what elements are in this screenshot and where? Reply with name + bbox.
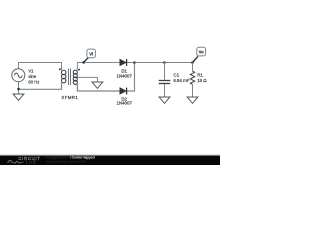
wire D2 cathode up to output node: [127, 63, 135, 92]
ground (source): [13, 94, 24, 100]
wire source top to primary top: [19, 63, 62, 71]
ground (C1): [159, 97, 170, 103]
node Vi flag: [82, 49, 95, 64]
svg-text:V1: V1: [28, 69, 34, 74]
voltage source V1: [12, 69, 25, 82]
wire secondary bottom to D2: [77, 84, 119, 91]
watermark bar: [0, 156, 220, 166]
svg-text:LAB: LAB: [26, 160, 37, 165]
transformer XFMR1 primary polarity dot: [59, 68, 61, 70]
ground (center tap): [92, 82, 103, 88]
svg-text:Vo: Vo: [199, 50, 204, 55]
wire primary bottom: [19, 83, 62, 90]
transformer XFMR1 secondary polarity dot: [78, 69, 80, 71]
ground (R1): [187, 97, 198, 103]
junction output node: [133, 61, 136, 64]
junction at C1 top: [163, 61, 166, 64]
svg-text:60 Hz: 60 Hz: [28, 80, 39, 85]
svg-text:6.94 mF: 6.94 mF: [173, 78, 189, 83]
wire output node to C1: [135, 62, 165, 64]
svg-text:C1: C1: [173, 73, 179, 78]
resistor R1: [190, 63, 194, 98]
wire D1 cathode to output node: [127, 62, 135, 64]
junction at source bottom: [17, 88, 20, 91]
diode D2: [120, 88, 127, 95]
transformer XFMR1 primary winding: [61, 70, 65, 83]
svg-text:1N4007: 1N4007: [117, 101, 133, 106]
watermark CircuitLab logo: [7, 156, 41, 165]
transformer XFMR1 secondary winding: [73, 70, 77, 84]
wire source bottom to junction: [18, 82, 20, 90]
capacitor C1: [159, 63, 171, 98]
svg-text:sine: sine: [28, 74, 36, 79]
svg-text:Vi: Vi: [89, 51, 93, 56]
transformer XFMR1 core: [69, 69, 71, 86]
junction at R1 top: [191, 61, 194, 64]
svg-text:15 Ω: 15 Ω: [197, 78, 207, 83]
svg-text:1N4007: 1N4007: [117, 74, 133, 79]
wire junction to ground: [18, 89, 20, 94]
wire C1 to R1: [165, 62, 193, 64]
node Vo flag: [193, 47, 206, 62]
wire secondary top to D1: [77, 63, 119, 71]
diode D1: [120, 59, 127, 66]
wire center tap to ground: [77, 77, 97, 82]
svg-text:http://circuitlab.com/c/66g72j: http://circuitlab.com/c/66g72j: [46, 160, 86, 164]
svg-text:XFMR1: XFMR1: [61, 95, 78, 100]
svg-text:R1: R1: [197, 73, 203, 78]
